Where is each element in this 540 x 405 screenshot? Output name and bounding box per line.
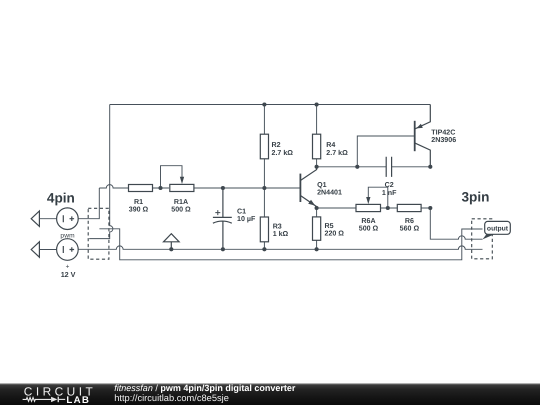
potentiometer R6A bbox=[356, 197, 381, 212]
logo resistor zigzag bbox=[23, 398, 51, 402]
svg-text:LAB: LAB bbox=[66, 395, 90, 405]
transistor Q1 bbox=[300, 167, 316, 208]
svg-text:2N3906: 2N3906 bbox=[431, 136, 456, 144]
svg-text:1 nF: 1 nF bbox=[382, 189, 397, 197]
wire R4 column leads bbox=[316, 105, 318, 167]
wire pwm pin to bottom rail to 3pin top pin bbox=[99, 229, 482, 260]
svg-text:pwm: pwm bbox=[60, 232, 75, 239]
svg-text:R4: R4 bbox=[326, 141, 335, 149]
wire R6A wiper link bbox=[368, 187, 388, 208]
svg-text:220 Ω: 220 Ω bbox=[325, 230, 345, 238]
voltage source V2 pwm bbox=[57, 239, 79, 261]
terminal arrow pin1 bbox=[31, 211, 39, 226]
capacitor C2 bbox=[386, 157, 391, 177]
svg-text:500 Ω: 500 Ω bbox=[359, 224, 379, 232]
svg-text:R5: R5 bbox=[325, 222, 334, 230]
wire R1A wiper loop bbox=[161, 166, 183, 188]
svg-text:10 µF: 10 µF bbox=[237, 215, 256, 223]
svg-text:3pin: 3pin bbox=[462, 190, 490, 205]
svg-text:http://circuitlab.com/c8e5sje: http://circuitlab.com/c8e5sje bbox=[114, 393, 229, 403]
svg-text:2.7 kΩ: 2.7 kΩ bbox=[326, 149, 348, 157]
svg-text:R2: R2 bbox=[272, 141, 281, 149]
footer brand bar bbox=[0, 383, 540, 405]
transistor U1 TIP42C bbox=[415, 105, 431, 167]
svg-text:1 kΩ: 1 kΩ bbox=[273, 230, 289, 238]
logo diode symbol bbox=[51, 397, 57, 402]
wire source V1 to main node bbox=[39, 188, 99, 219]
schematic text labels bbox=[47, 129, 490, 279]
connector 4pin dashed box bbox=[88, 208, 109, 259]
svg-text:390 Ω: 390 Ω bbox=[129, 206, 149, 214]
svg-text:R3: R3 bbox=[273, 222, 282, 230]
wire R5 leads bbox=[316, 208, 318, 249]
resistor R2 bbox=[260, 134, 268, 159]
capacitor C1 bbox=[213, 188, 232, 249]
resistor R5 bbox=[313, 217, 321, 240]
output flag bbox=[483, 221, 511, 239]
wire main signal run with hop bbox=[99, 185, 300, 188]
potentiometer R1A bbox=[170, 177, 194, 192]
wire top supply rail bbox=[110, 104, 431, 106]
wire R6A to R6 bbox=[381, 207, 431, 209]
wire collector row through C2 bbox=[317, 166, 431, 168]
svg-text:12 V: 12 V bbox=[61, 270, 76, 279]
svg-text:2N4401: 2N4401 bbox=[317, 188, 342, 196]
svg-text:4pin: 4pin bbox=[47, 190, 75, 205]
wire source V2 to ground rail with hops bbox=[39, 246, 482, 250]
svg-text:500 Ω: 500 Ω bbox=[171, 206, 191, 214]
svg-text:output: output bbox=[487, 226, 509, 233]
connector 3pin dashed box bbox=[472, 219, 493, 259]
voltage source V1 bbox=[57, 208, 79, 230]
resistor R4 bbox=[313, 134, 321, 159]
wire R2 R3 column leads bbox=[263, 105, 265, 250]
wire emitter node to R6A bbox=[317, 207, 356, 209]
resistor R3 bbox=[260, 217, 268, 242]
wire output line from R6 node with hop bbox=[430, 208, 482, 239]
svg-text:2.7 kΩ: 2.7 kΩ bbox=[272, 149, 294, 157]
svg-text:560 Ω: 560 Ω bbox=[400, 224, 420, 232]
resistor R1 bbox=[129, 185, 153, 192]
wire riser to TIP42C base bbox=[357, 136, 414, 167]
junction node dots bbox=[158, 102, 432, 251]
svg-text:C1: C1 bbox=[237, 207, 246, 215]
antenna flag symbol bbox=[164, 234, 180, 250]
svg-text:fitnessfan / pwm 4pin/3pin dig: fitnessfan / pwm 4pin/3pin digital conve… bbox=[114, 383, 296, 393]
wire 12V riser with hop over pwm wire bbox=[89, 105, 113, 239]
terminal arrow pin2 bbox=[31, 242, 39, 257]
resistor R6 bbox=[397, 204, 421, 211]
